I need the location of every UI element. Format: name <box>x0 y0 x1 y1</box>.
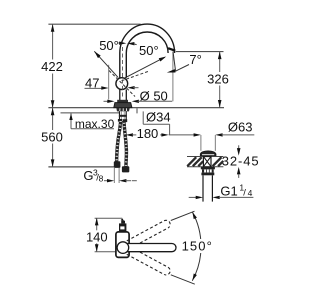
svg-text:422: 422 <box>41 59 63 74</box>
svg-text:8: 8 <box>99 173 104 183</box>
svg-text:7°: 7° <box>189 52 201 67</box>
svg-text:Ø63: Ø63 <box>228 119 253 134</box>
svg-text:Ø34: Ø34 <box>146 110 171 125</box>
svg-text:G1: G1 <box>220 184 237 199</box>
svg-text:50°: 50° <box>139 43 159 58</box>
svg-text:32-45: 32-45 <box>222 153 260 168</box>
svg-text:G: G <box>83 168 93 183</box>
svg-text:180: 180 <box>137 126 159 141</box>
svg-text:50°: 50° <box>99 38 119 53</box>
svg-text:326: 326 <box>207 71 229 86</box>
svg-text:/: / <box>243 188 246 199</box>
svg-text:560: 560 <box>41 130 63 145</box>
svg-text:4: 4 <box>248 188 253 198</box>
svg-text:140: 140 <box>86 229 108 244</box>
svg-text:max.30: max.30 <box>75 117 115 131</box>
svg-text:Ø 50: Ø 50 <box>140 88 168 103</box>
svg-text:150°: 150° <box>182 238 213 253</box>
